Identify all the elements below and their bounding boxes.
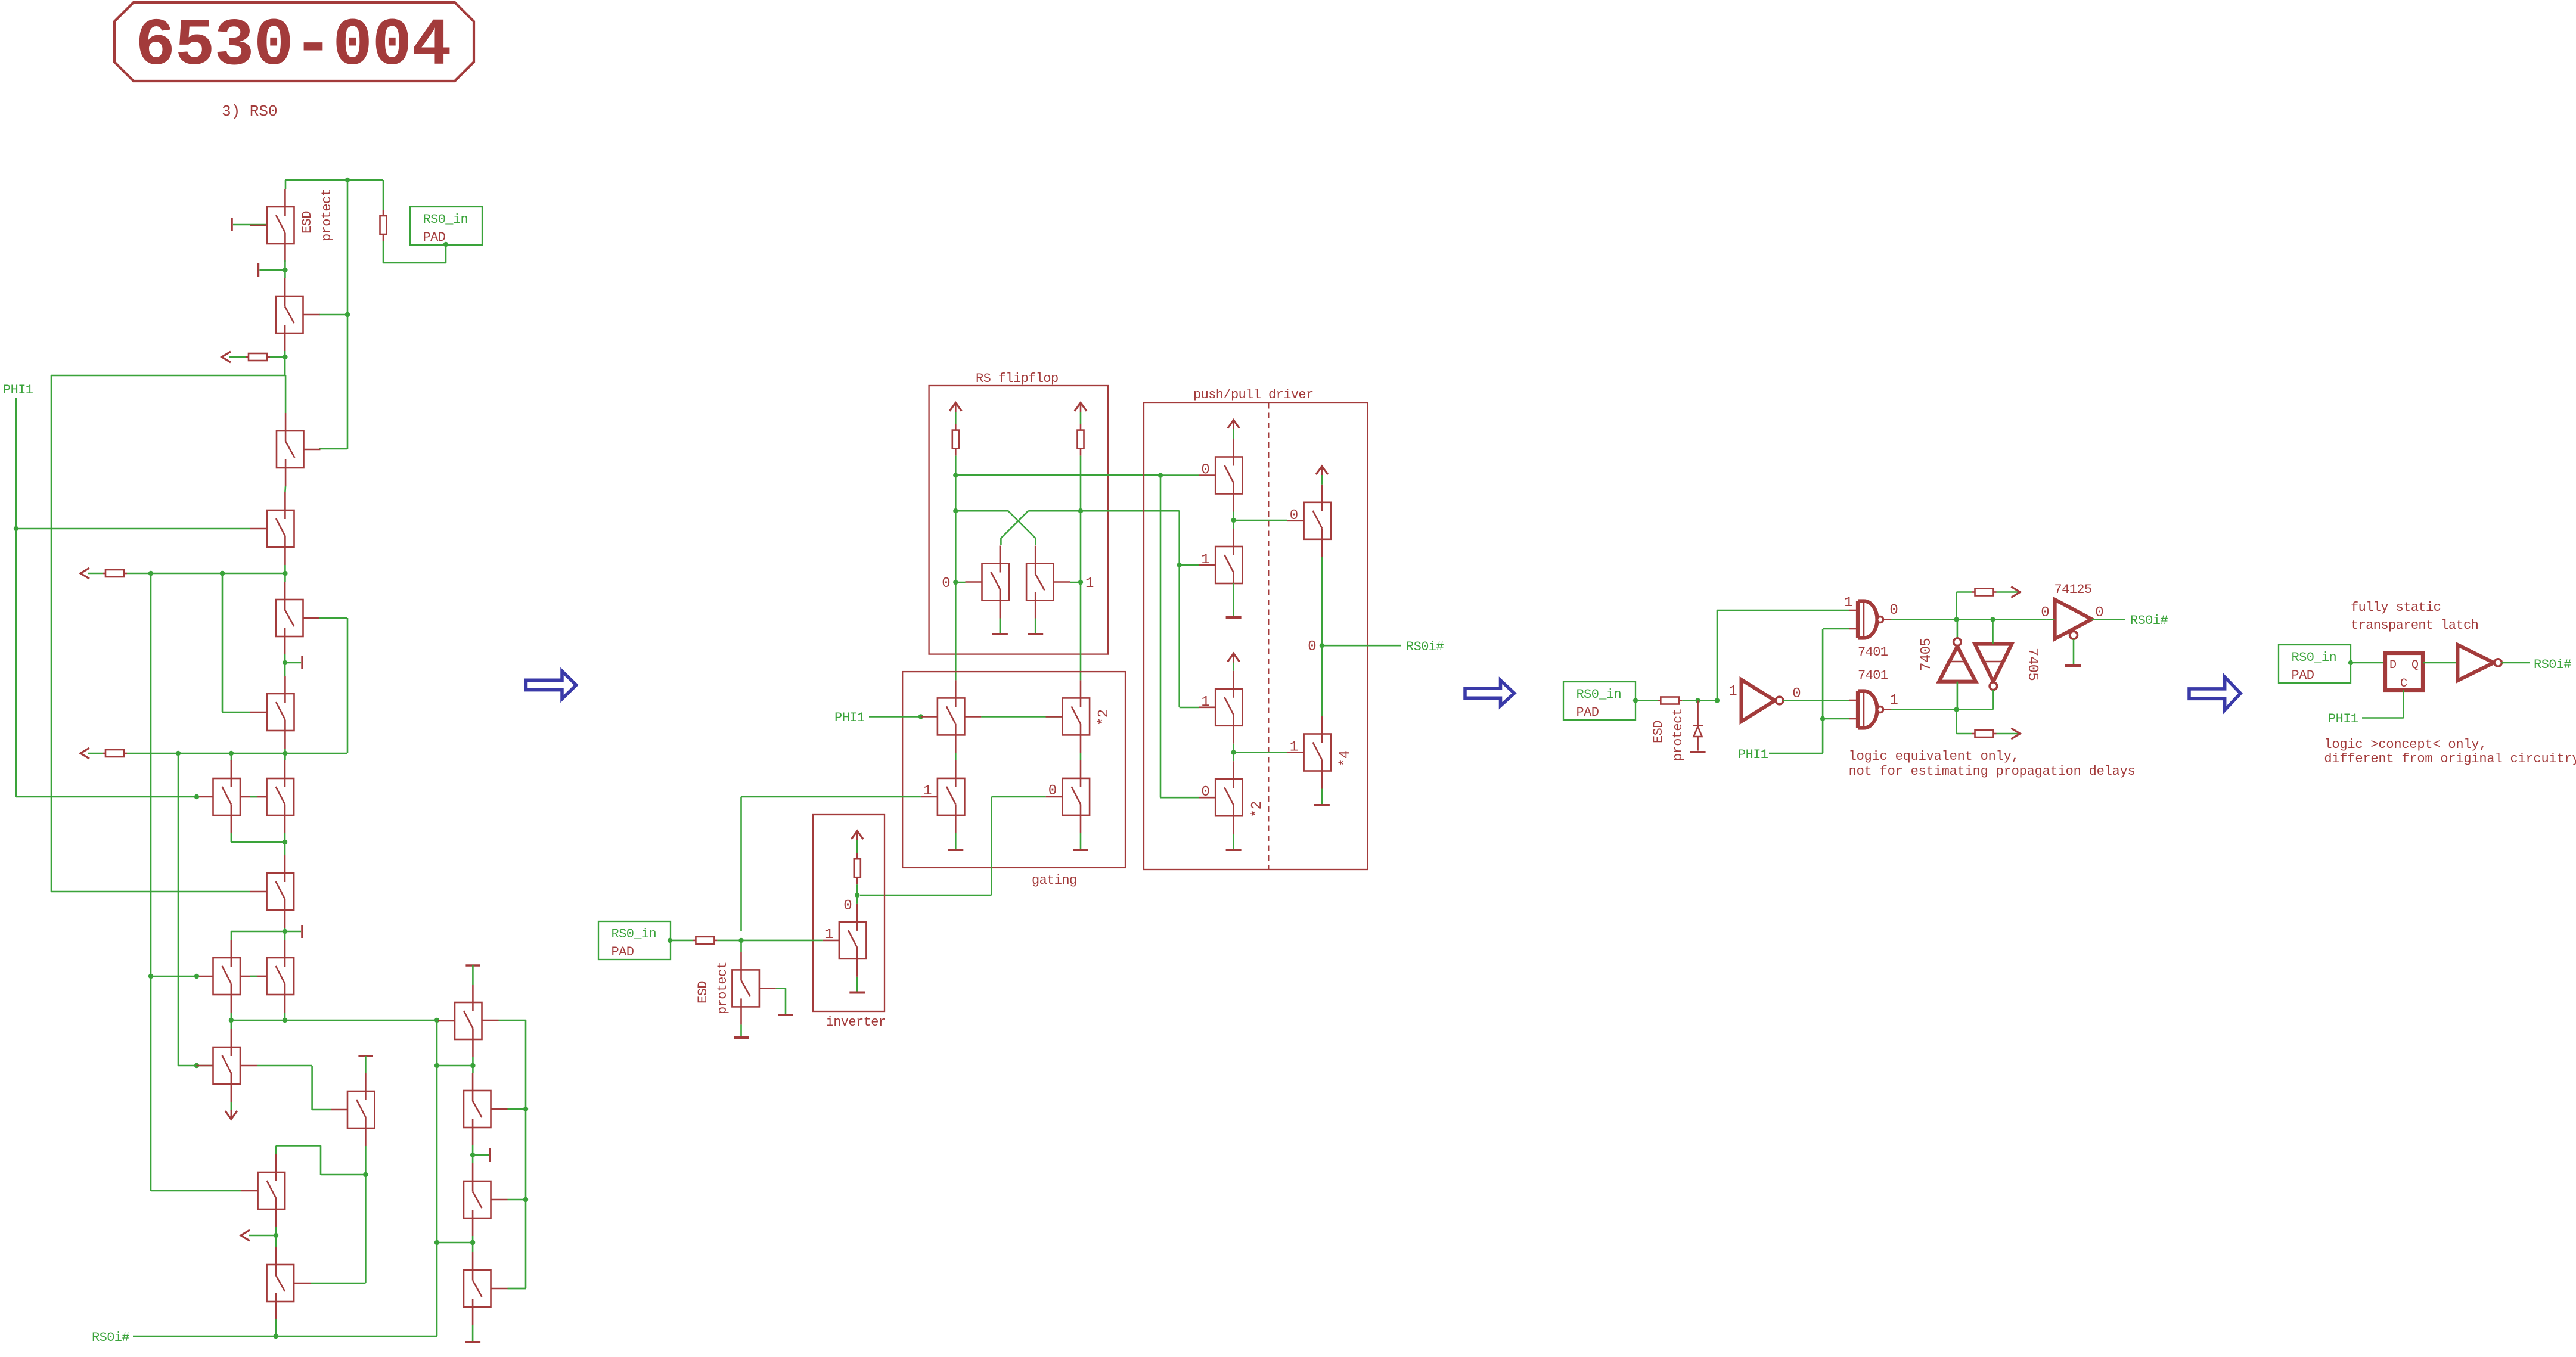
svg-text:0: 0 [2041, 605, 2049, 621]
svg-text:0: 0 [1792, 686, 1801, 702]
wire U4 output to U2out [1992, 690, 1994, 710]
svg-text:not for estimating propagation: not for estimating propagation delays [1849, 764, 2136, 779]
net U3 output to U1out [1957, 620, 1959, 638]
terminal T-bar Q5 [285, 656, 302, 669]
label RS0_in PAD3 [1563, 682, 1635, 720]
wire net RS0i# [133, 1336, 437, 1337]
wire node0 gate [955, 582, 965, 583]
resistor R2 pullup A [246, 353, 270, 361]
svg-text:7401: 7401 [1858, 645, 1888, 660]
wire Q21 source [1035, 619, 1036, 634]
svg-text:1: 1 [923, 783, 932, 799]
wire PHI1 vertical [15, 398, 17, 797]
svg-text:0: 0 [942, 576, 950, 592]
wire Q26 source [856, 977, 858, 992]
ground Q25 [1073, 849, 1088, 851]
VCC arrow inverter [851, 831, 863, 840]
transistor Q4 [250, 492, 294, 565]
wire Q9 source [284, 928, 286, 940]
wire Q14 source [275, 1227, 277, 1247]
wire Q30 source to RS0i# node [1321, 557, 1323, 716]
svg-text:0: 0 [2095, 605, 2103, 621]
svg-text:74125: 74125 [2054, 582, 2092, 597]
net node0 down to gating [955, 582, 957, 680]
svg-text:ESD: ESD [300, 211, 315, 234]
junction Q2 source [283, 355, 287, 359]
NAND U1 7401 upper [1849, 601, 1892, 638]
junction Q17 source T-bar [470, 1153, 475, 1157]
junction x733 a [434, 1063, 439, 1068]
junction row1 main [283, 571, 287, 576]
wire arrow to R5 [955, 412, 957, 424]
label RS0_in PAD1 [410, 207, 482, 245]
resistor R11 pullup bottom [1972, 730, 1997, 737]
wire Q27 gate to ground [776, 988, 786, 989]
junction PAD4 pin [2348, 660, 2353, 665]
svg-text:PHI1: PHI1 [3, 383, 33, 398]
junction Q11 source node [283, 1018, 287, 1023]
resistor R6 RSff right [1078, 424, 1084, 456]
block outline inverter [813, 815, 884, 1011]
transistor Q32 [1199, 761, 1243, 834]
junction row2 b [229, 751, 234, 756]
net U0 out to U2 [1783, 700, 1849, 701]
junction row1 b [220, 571, 225, 576]
svg-text:ESD: ESD [696, 981, 710, 1004]
transistor Q18 [464, 1163, 508, 1236]
junction U1out b [1990, 617, 1995, 622]
resistor R3 pullup row1 [103, 570, 127, 577]
svg-text:0: 0 [1201, 784, 1209, 800]
junction Q12 gate pin [194, 1063, 199, 1068]
wire Q5 gate riser [319, 617, 347, 619]
svg-text:RS0i#: RS0i# [1406, 639, 1444, 654]
wire Q15 gate corner [311, 1283, 365, 1284]
diode D1 ESD [1693, 701, 1703, 751]
svg-text:PAD: PAD [423, 230, 446, 245]
resistor R5 RSff left [952, 424, 959, 456]
wire Q16 drain [472, 965, 474, 985]
wire Q15 source to RS0i# [275, 1319, 277, 1336]
wire Q4 source to row1 [284, 565, 286, 582]
resistor R10 pullup top [1972, 589, 1997, 596]
svg-text:1: 1 [1889, 693, 1898, 709]
label RS0_in PAD2 [598, 921, 671, 959]
ground Q26 [849, 992, 865, 994]
svg-text:0: 0 [1048, 783, 1057, 799]
wire R7 to node [856, 884, 858, 904]
wire Q18 gate [508, 1199, 526, 1201]
wire net RS0 pad top [285, 180, 287, 189]
junction RS0_in node [738, 938, 743, 943]
resistor R1 pad series [380, 210, 387, 241]
svg-text:0: 0 [843, 898, 852, 914]
svg-text:1: 1 [1201, 694, 1209, 710]
resistor R4 pullup row2 [103, 750, 127, 757]
wire row1 [127, 573, 285, 575]
wire x253 continue [150, 976, 152, 1191]
transistor Q23 [921, 760, 965, 833]
svg-text:RS0i#: RS0i# [92, 1330, 129, 1345]
svg-text:logic equivalent only,: logic equivalent only, [1849, 749, 2019, 764]
wire Q22 gate through to Q24 [964, 716, 981, 718]
wire long left branch [51, 375, 285, 377]
junction RS0i# mid node [1320, 643, 1324, 648]
junction arrow left tap [274, 1233, 278, 1238]
net RS0_in to Q23 gate [741, 796, 921, 798]
inverter U3 7405 up [1939, 647, 1976, 682]
wire riser x733 [436, 1020, 438, 1336]
wire U6 out to U7 [2423, 662, 2457, 664]
svg-text:RS flipflop: RS flipflop [976, 371, 1059, 386]
junction U1out a [1954, 617, 1959, 622]
node VIN vertical [347, 180, 349, 449]
terminal T-bar Q9 [285, 925, 302, 938]
wire Q32 source [1233, 834, 1234, 849]
transistor Q25 [1046, 760, 1090, 833]
wire Q19 source to ground [472, 1325, 474, 1341]
junction Q9 drain node [283, 840, 287, 844]
wire arrow Q31 [1233, 663, 1234, 671]
junction Q28 source [1231, 518, 1236, 523]
wire Q29 gate [1180, 564, 1199, 566]
junction PAD3 pin [1633, 698, 1638, 703]
svg-text:1: 1 [825, 927, 833, 943]
transistor Q1 ESD protect [250, 189, 294, 262]
transistor Q24 x2 [1046, 680, 1090, 753]
wire long gate x86 to Q9 [51, 891, 250, 893]
VCC arrow Q28 [1228, 420, 1240, 430]
wire row2 [127, 753, 347, 754]
wire R6 to node1 [1080, 456, 1082, 582]
svg-text:RS0_in: RS0_in [612, 927, 657, 942]
block outline gating [902, 672, 1125, 868]
svg-text:RS0i#: RS0i# [2534, 657, 2571, 672]
svg-text:PAD: PAD [612, 945, 634, 959]
svg-text:Q: Q [2411, 659, 2419, 672]
transistor Q29 [1199, 529, 1243, 601]
junction Q29 gate [1177, 563, 1182, 567]
wire Q13 source node [365, 1146, 367, 1283]
svg-text:0: 0 [1290, 508, 1298, 524]
wire Q10-Q11 gate through [240, 976, 250, 977]
wire Q16 source node [472, 1057, 474, 1073]
arrow VCC left tap tip [241, 1230, 250, 1241]
junction PAD2 pin [668, 938, 672, 943]
resistor R8 pad2 series [693, 937, 717, 944]
transistor Q19 [464, 1252, 508, 1325]
svg-text:0: 0 [1201, 462, 1209, 479]
transistor Q17 [464, 1073, 508, 1145]
wire Q31 source node [1233, 744, 1234, 761]
net 1 to pushpull [1081, 510, 1180, 512]
net U1 output [1891, 619, 2047, 620]
junction Q18 source [470, 1240, 475, 1245]
wire Q12 source to ground arrow [231, 1102, 232, 1111]
arrow VCC right bottom [2011, 728, 2020, 739]
net PHI1 to latch C [2362, 717, 2404, 719]
wire R2 to node [270, 356, 285, 358]
svg-text:RS0i#: RS0i# [2130, 613, 2168, 628]
net U5 output [2091, 619, 2125, 620]
junction diode tap [1695, 698, 1700, 703]
wire Q24 source to Q25 [1080, 753, 1082, 760]
wire Q11 source [284, 1013, 286, 1020]
wire X cross left [955, 510, 1008, 512]
wire Q17 gate [508, 1108, 526, 1110]
wire pullup bottom riser [1956, 710, 1957, 734]
wire to Q3 drain [285, 375, 287, 413]
net PHI1 U1 inputB [1822, 629, 1824, 753]
wire Q22 source to Q23 [955, 753, 957, 760]
VCC arrow Q30 [1316, 466, 1328, 476]
junction Q13 source [363, 1172, 368, 1177]
junction x253 gate row [148, 974, 153, 979]
junction RSff node1 [1078, 580, 1083, 585]
arrow VCC pullup row1 tip [80, 568, 89, 579]
wire Q2 source chain [284, 351, 286, 375]
svg-text:1: 1 [1290, 740, 1298, 756]
wire PHI1 to Q4 gate [16, 528, 250, 530]
junction RSff 0 upper [953, 473, 958, 477]
arrow VCC right top [2011, 587, 2020, 598]
net U2 output [1891, 709, 1993, 710]
wire R10 to arrow [1997, 591, 2021, 593]
terminal T-bar2 [258, 263, 285, 277]
svg-text:fully static: fully static [2351, 600, 2441, 615]
junction Q16 gate pin [434, 1018, 439, 1023]
junction Q10 gate pin [194, 974, 199, 979]
ground Q27 [734, 1036, 749, 1039]
junction T-bar2 [283, 268, 287, 272]
wire Q8 drain from row2 [284, 753, 286, 760]
wire arrow Q30 [1321, 475, 1323, 485]
transistor Q12 [197, 1029, 241, 1102]
wire Q7 drain drop [231, 753, 232, 761]
svg-text:*2: *2 [1249, 801, 1265, 818]
wire Q5 source [284, 654, 286, 676]
svg-text:push/pull driver: push/pull driver [1193, 387, 1314, 402]
net1 riser [1178, 511, 1180, 707]
wire Q25 source [1080, 833, 1082, 849]
junction row2 a [176, 751, 181, 756]
wire pullup top riser [1956, 592, 1957, 620]
wire U3 input from U2out [1957, 682, 1959, 710]
svg-text:ESD: ESD [1651, 721, 1666, 743]
junction Q31 source [1231, 750, 1236, 754]
wire arrow A [229, 356, 246, 358]
wire arrow tap [249, 1235, 276, 1237]
wire vertical x299 [178, 753, 179, 1066]
net RS0i# out [1322, 645, 1401, 647]
wire Q10 source [231, 1013, 232, 1029]
wire Q8 source [284, 833, 286, 855]
net PHI1 middle [869, 716, 921, 718]
wire R9 to node [1682, 700, 1717, 701]
label RS0_in PAD4 [2279, 645, 2351, 683]
net0 riser to Q32 gate [1160, 476, 1162, 798]
wire Q27 source [740, 1024, 742, 1036]
arrow VCC pullup A tip [222, 352, 231, 362]
svg-text:PHI1: PHI1 [834, 710, 865, 725]
transistor Q21 RSff right [1026, 546, 1070, 619]
wire Q7 source corner [231, 833, 232, 842]
junction PHI1 pin [918, 714, 923, 719]
junction inverter input branch [1715, 698, 1720, 703]
svg-text:7401: 7401 [1858, 668, 1888, 683]
svg-text:PAD: PAD [2292, 668, 2314, 683]
section arrow 2 blue [1465, 681, 1514, 706]
wire Q6 source to row2 [284, 749, 286, 760]
svg-text:RS0_in: RS0_in [2292, 650, 2337, 665]
wire Q13 drain [365, 1056, 367, 1073]
svg-text:RS0_in: RS0_in [1576, 687, 1622, 702]
transistor Q8 [250, 760, 294, 833]
junction RSff node0 [953, 580, 958, 585]
svg-text:6530-004: 6530-004 [135, 8, 451, 84]
wire node down to Q27 [740, 940, 742, 952]
transistor Q15 [267, 1247, 311, 1319]
svg-text:1: 1 [1728, 684, 1737, 700]
wire arrow Q28 [1233, 429, 1234, 439]
svg-text:C: C [2400, 677, 2407, 691]
transistor Q2 [276, 278, 320, 351]
wire U4 input from U1out [1992, 620, 1994, 644]
svg-text:logic >concept< only,: logic >concept< only, [2324, 737, 2487, 752]
svg-text:0: 0 [1308, 639, 1316, 655]
svg-text:protect: protect [715, 962, 730, 1014]
wire Q20 source [1000, 619, 1001, 634]
transistor Q7 [197, 760, 241, 833]
block outline RS flipflop [929, 386, 1108, 654]
transistor Q27 ESD protect [732, 952, 776, 1024]
svg-text:0: 0 [1889, 603, 1898, 619]
transistor Q22 phi1 pass [921, 680, 965, 753]
terminal T-bar Q17 [473, 1148, 490, 1162]
NAND U2 7401 lower [1849, 691, 1892, 728]
wire PAD3 to R9 [1635, 700, 1658, 701]
section arrow 3 blue [2189, 677, 2240, 710]
inverter U0 bubble [1776, 697, 1783, 704]
wire Q1 source to Q2 [284, 260, 286, 278]
wire net row1712 [231, 1020, 437, 1021]
wire U1 inputB [1823, 628, 1849, 630]
svg-text:1: 1 [1844, 595, 1852, 611]
transistor Q14 [241, 1154, 285, 1227]
ground Q19 [465, 1341, 480, 1343]
junction RS0i# node [274, 1334, 278, 1339]
wire Q23 source [955, 833, 957, 849]
wire net0 to Q28 gate [1160, 474, 1199, 476]
junction Q10 source node [229, 1018, 234, 1023]
junction RSff 1 upper [1078, 508, 1083, 513]
transistor Q11 [250, 940, 294, 1013]
ground Q32 [1226, 849, 1242, 851]
wire row2085 [437, 1242, 473, 1244]
ground Q20 [992, 633, 1008, 635]
svg-text:1: 1 [1085, 576, 1094, 592]
junction Q2 gate tap [345, 312, 350, 317]
inverter U4 7405 down [1975, 644, 2012, 682]
wire x253 to Q14 gate [151, 1190, 241, 1192]
wire gate row1337 [16, 796, 197, 798]
wire Q17 source node [472, 1145, 474, 1163]
terminal VCC top bar Q13 [358, 1055, 373, 1057]
VCC arrow Q31 [1228, 653, 1240, 663]
wire x299 gate pin Q12 [197, 1065, 213, 1067]
transistor Q13 [331, 1073, 375, 1146]
svg-text:PHI1: PHI1 [2328, 712, 2358, 726]
wire R1 to PAD [383, 241, 384, 263]
transistor Q6 [250, 676, 294, 749]
svg-text:D: D [2389, 659, 2397, 672]
ground Q27 gate [778, 1014, 793, 1016]
VCC arrow RSff right [1075, 403, 1087, 412]
ground Q33 [1314, 804, 1330, 806]
wire vertical x253 [150, 573, 152, 976]
inverter U7 bubble [2494, 659, 2501, 666]
transistor Q20 RSff left [966, 546, 1010, 619]
svg-text:PAD: PAD [1576, 705, 1599, 720]
net 0 to pushpull [955, 474, 1160, 476]
wire node1 gate [1070, 582, 1081, 583]
junction Q7 gate pin [194, 794, 199, 799]
wire U5 input [2047, 619, 2055, 620]
transistor Q5 [276, 582, 320, 654]
transistor Q9 [250, 855, 294, 928]
buffer U5 74125 [2055, 600, 2092, 639]
resistor R7 inverter [854, 853, 861, 884]
wire R11 to arrow [1997, 733, 2021, 735]
svg-text:RS0_in: RS0_in [423, 212, 468, 227]
svg-text:inverter: inverter [826, 1015, 886, 1030]
wire vertical x373 to Q6 gate [222, 573, 224, 712]
block outline push/pull driver [1144, 403, 1368, 870]
wire Q28 source node [1233, 512, 1234, 529]
wire Q29 source [1233, 583, 1234, 616]
inverter U3 bubble [1954, 638, 1962, 646]
svg-text:transparent latch: transparent latch [2351, 618, 2478, 633]
svg-text:protect: protect [319, 189, 334, 241]
resistor R9 pad3 series [1658, 697, 1682, 704]
transistor Q28 [1199, 439, 1243, 512]
ground D1 [1690, 751, 1706, 753]
wire pad resistor drop [383, 180, 384, 210]
inverter U7 [2457, 645, 2494, 681]
wire X cross right [1028, 510, 1081, 512]
latch U6 box [2385, 653, 2423, 690]
buffer U5 enable bubble [2070, 631, 2078, 639]
junction PHI1 branch [1820, 716, 1825, 721]
wire U2 inputB [1823, 718, 1849, 720]
junction Q5 source T-bar [283, 660, 287, 665]
wire PAD4 to latch [2351, 662, 2385, 664]
transistor Q30 [1287, 485, 1332, 557]
inverter U0 7404-style [1742, 680, 1775, 722]
transistor Q16 [438, 985, 482, 1057]
junction row1 a [148, 571, 153, 576]
wire Q14 drain loop [275, 1146, 277, 1155]
wire branch to Q10 drain [231, 931, 285, 933]
net inverter out to Q25 gate [992, 796, 1046, 798]
wire arrow to R6 [1080, 412, 1082, 424]
divider dashed pushpull [1268, 403, 1269, 870]
wire to x733 row1788 [437, 1065, 473, 1067]
ground U5 enable [2065, 664, 2081, 667]
net U7 out RS0i# [2502, 662, 2531, 664]
wire Q7-Q8 gate through [240, 796, 250, 798]
ground Q23 [948, 849, 963, 851]
